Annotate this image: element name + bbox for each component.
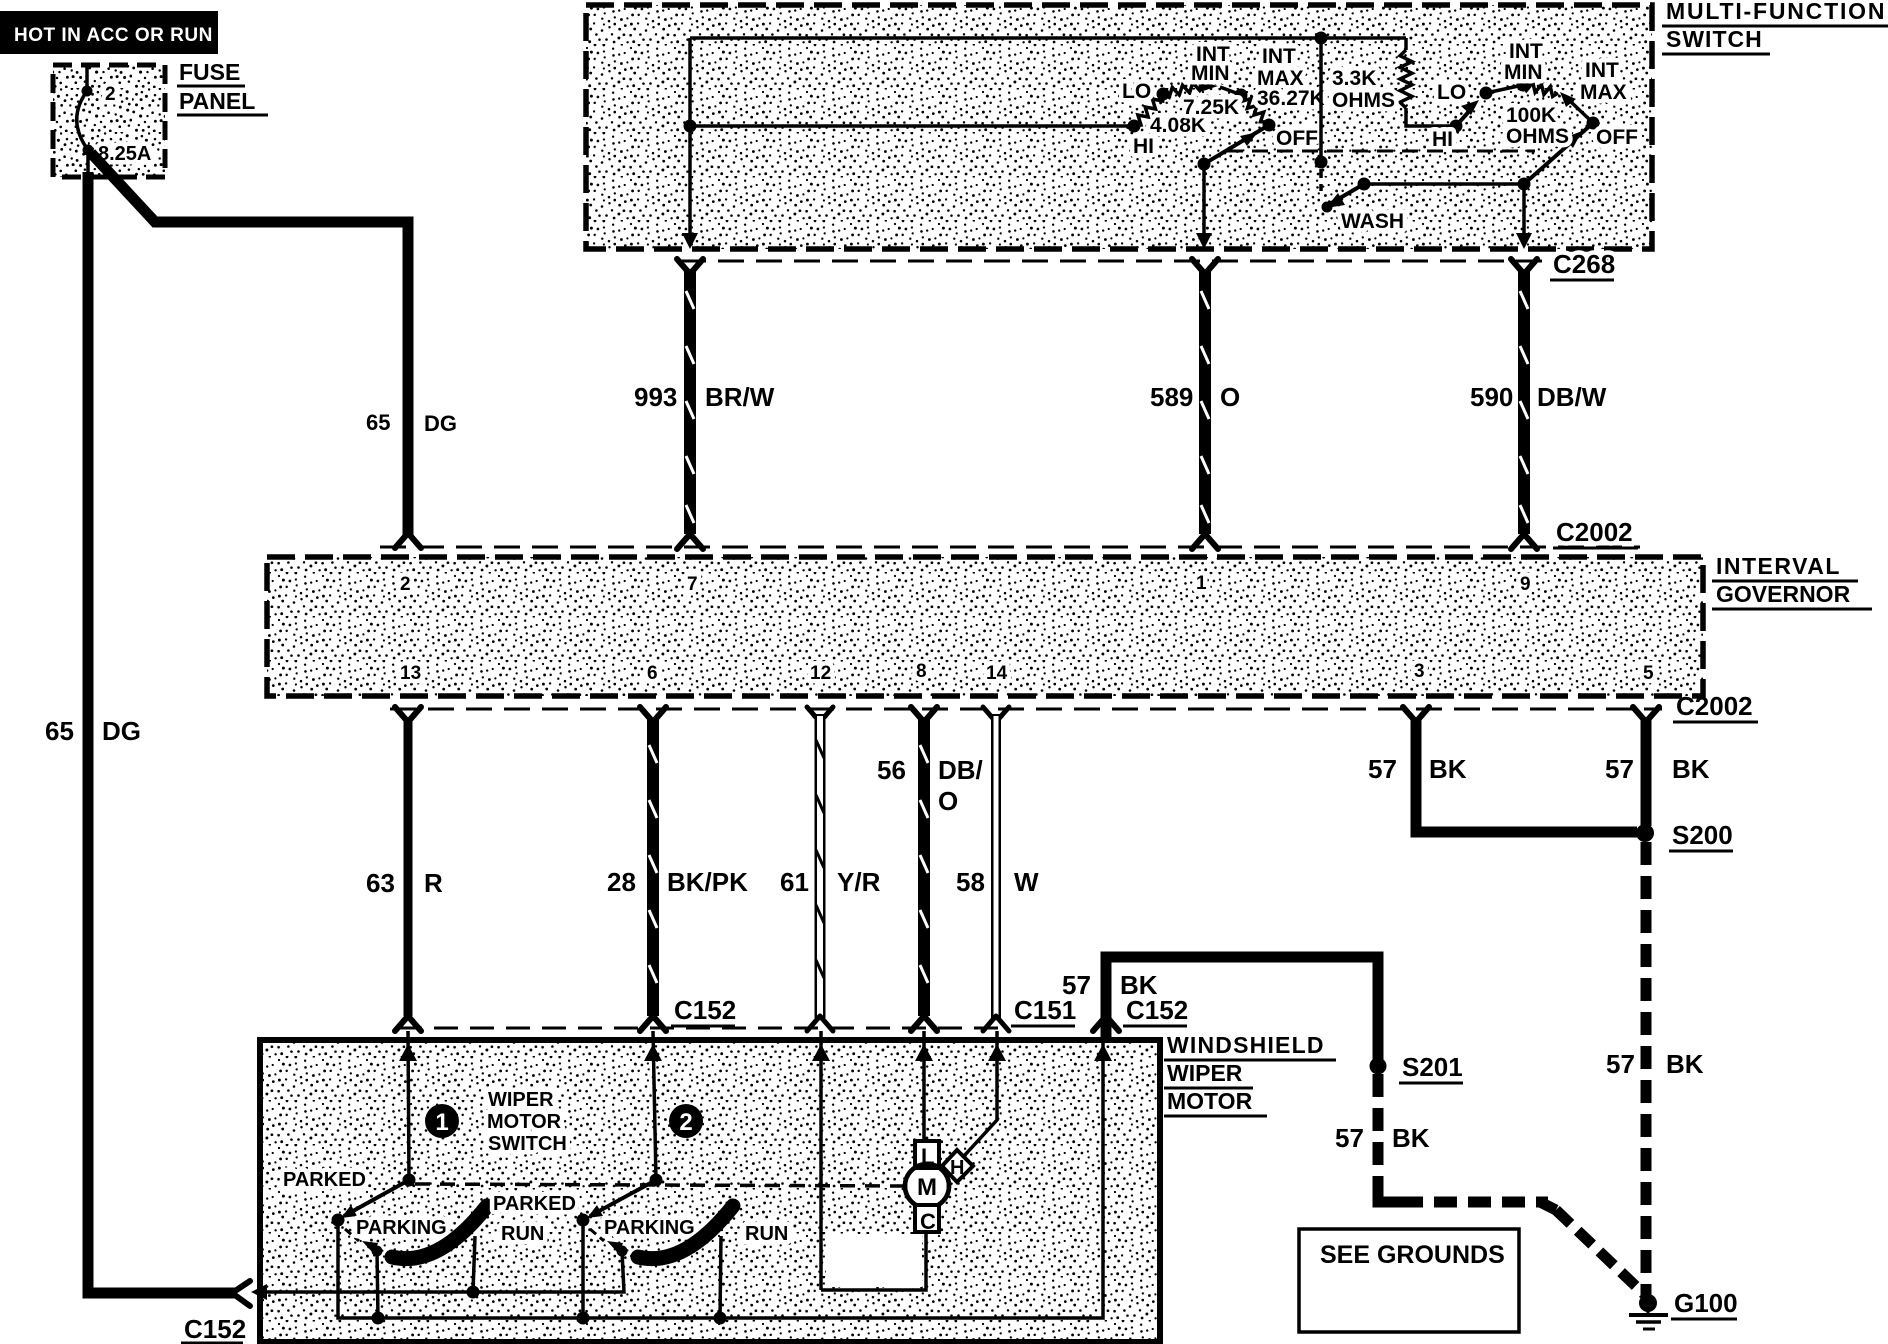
svg-text:14: 14 (986, 663, 1008, 684)
wire: 58 stem to motor brush H (964, 1031, 997, 1156)
svg-text:BK: BK (1429, 754, 1467, 784)
svg-text:1: 1 (435, 1109, 448, 1136)
svg-text:65: 65 (45, 716, 74, 746)
node: wash arm end (1322, 202, 1333, 213)
svg-text:1: 1 (1196, 573, 1207, 594)
splice S201 (1370, 1058, 1387, 1075)
node: switch 2 parked on bus (577, 1312, 590, 1325)
svg-text:BK/PK: BK/PK (667, 867, 748, 897)
svg-text:WIPER: WIPER (1167, 1060, 1243, 1086)
node: INT MAX contact (left wiper switch) (1235, 89, 1248, 102)
connector C268 fork at 590 wire (1511, 259, 1537, 274)
svg-text:INT: INT (1585, 59, 1619, 82)
connector C2002 fork at governor pin 2 (395, 533, 421, 548)
wire 65 DG right run (fuse to governor pin 2) (91, 153, 408, 536)
arrow into box at 56 wire (915, 1044, 933, 1061)
wiper switch 2 arm arrowhead (587, 1205, 603, 1218)
node: switch 2 parked contact (577, 1214, 590, 1227)
C152 fork at 28 wire (640, 1016, 666, 1031)
node: OFF contact (left wiper switch) (1263, 119, 1276, 132)
wiper position arrow INT MAX right (1560, 92, 1576, 107)
wire 56 DB/O (hatched) (918, 718, 930, 1016)
svg-text:C2002: C2002 (1676, 691, 1753, 721)
wiper switch 1 arm (344, 1180, 409, 1216)
svg-text:57: 57 (1606, 1049, 1635, 1079)
svg-text:3: 3 (1414, 661, 1425, 682)
node: run 1 on park bus (467, 1286, 480, 1299)
C151 fork at 58 wire (983, 1016, 1009, 1031)
svg-text:DB/: DB/ (938, 755, 983, 785)
svg-text:HI: HI (1432, 128, 1453, 151)
svg-text:DG: DG (424, 411, 457, 436)
cam arc switch 1 (392, 1206, 487, 1259)
wire 58 W (outlined) (991, 714, 1001, 1018)
svg-text:PARKED: PARKED (493, 1193, 576, 1215)
svg-text:12: 12 (810, 663, 831, 684)
wire: resistor bottom to HI right (1406, 108, 1456, 126)
arrow into box at 61 wire (812, 1044, 830, 1061)
node: 590 drop junction (1518, 178, 1531, 191)
node: fuse bottom terminal (83, 145, 94, 156)
resistor 3.3K OHMS (1404, 38, 1408, 50)
connector C152/C151 dashed line at motor (398, 1027, 1010, 1030)
wiper arm right switch (OFF to junction) (1524, 123, 1593, 184)
wire diagonal to G100 (dashed thick) (1540, 1202, 1556, 1210)
svg-text:C268: C268 (1553, 249, 1615, 279)
wiper position arrow INT MIN (1198, 81, 1218, 92)
svg-text:MAX: MAX (1580, 81, 1627, 104)
svg-text:R: R (424, 868, 443, 898)
node: LO contact (left wiper switch) (1157, 88, 1170, 101)
motor M assembly (905, 1141, 973, 1234)
wire: 57 BK stem inside box to bottom bus (720, 1031, 1103, 1318)
node: LO contact (right washer switch) (1480, 87, 1493, 100)
arrow out of box to C152 (park bus) (251, 1284, 267, 1300)
C152 fork at 61 wire (807, 1016, 833, 1031)
node: wash fixed contact (1315, 156, 1328, 169)
svg-text:3.3K: 3.3K (1332, 67, 1376, 90)
wire 65 DG left run (fuse panel down to C152) (88, 172, 237, 1293)
node: fuse top terminal (82, 86, 93, 97)
wiper arrowhead at LO (1461, 100, 1479, 115)
label: 100K OHMS (1506, 104, 1569, 148)
connector C268 dashed line (680, 260, 1612, 263)
svg-text:OHMS: OHMS (1332, 89, 1395, 112)
connector C2002 top dashed line (380, 546, 1640, 549)
switch id circle 1 (425, 1104, 459, 1138)
connector C2002 fork at 590 wire (1511, 534, 1537, 549)
wire: 61 stem down inside box (819, 1031, 823, 1290)
label: 3.3K OHMS (1332, 67, 1395, 112)
wire: parked contact 1 down to bottom bus (338, 1220, 378, 1318)
svg-text:LO: LO (1122, 80, 1151, 103)
svg-text:BK: BK (1392, 1123, 1430, 1153)
wire: motor C brush to Y/R return (821, 1232, 926, 1290)
connector C2002 fork at 589 wire (1192, 534, 1218, 549)
dashed stub below wash contact (1319, 169, 1323, 191)
wire: 28 stem to pivot 2 (653, 1031, 656, 1180)
switch id circle 2 (669, 1104, 703, 1138)
svg-text:C152: C152 (184, 1314, 246, 1344)
svg-text:7: 7 (687, 574, 698, 595)
connector C2002 bottom dashed line (390, 708, 1662, 711)
svg-text:2: 2 (679, 1109, 692, 1136)
wiper switch 1 arm arrowhead (341, 1205, 357, 1218)
wash switch arm (1328, 184, 1364, 205)
wire: wash pivot to 590 drop (1364, 182, 1524, 186)
arrow down at MFS bottom x=690 (682, 233, 698, 249)
label: 63 R (366, 868, 443, 898)
svg-text:OHMS: OHMS (1506, 125, 1569, 148)
cam dashed line pivot1 to motor (415, 1184, 903, 1186)
node: left wiper pivot (1198, 158, 1211, 171)
svg-text:PARKING: PARKING (356, 1217, 447, 1239)
label: 590 DB/W (1470, 382, 1607, 412)
ground G100 (1629, 1294, 1668, 1329)
svg-text:36.27K: 36.27K (1257, 87, 1325, 110)
label: connector C152 bottom left (181, 1314, 246, 1344)
svg-text:590: 590 (1470, 382, 1513, 412)
svg-text:BK: BK (1672, 754, 1710, 784)
resistor 7.25K (1163, 83, 1204, 97)
node: INT MIN contact right (1517, 79, 1530, 92)
C2002 fork at 57 wire pin 3 (1403, 707, 1429, 722)
svg-text:WINDSHIELD: WINDSHIELD (1167, 1032, 1325, 1058)
wiper arm arrowhead (1240, 132, 1258, 146)
wire 57 BK from pin 5 (thick) (1641, 718, 1652, 826)
wire 57 BK from pin 3 (thick) (1416, 718, 1637, 832)
wiper arm right arrowhead (1564, 131, 1582, 148)
svg-text:8: 8 (916, 661, 927, 682)
internal dashed separator in MFS (1227, 150, 1535, 153)
C2002 fork at 56 wire (911, 707, 937, 722)
svg-text:7.25K: 7.25K (1183, 96, 1239, 119)
svg-text:G100: G100 (1674, 1288, 1738, 1318)
arrow into box at 58 wire (988, 1044, 1006, 1061)
wire: INT MIN to INT MAX contact (1220, 87, 1239, 94)
label: S200 (1669, 820, 1733, 851)
wire 589 O (hatched) (1199, 270, 1211, 534)
white pocket below motor (826, 1234, 922, 1287)
label: 57 BK ground run (1606, 1049, 1704, 1079)
node: run 2 on bottom bus (714, 1312, 727, 1325)
svg-text:BK: BK (1666, 1049, 1704, 1079)
resistor 4.08K (1134, 94, 1163, 126)
resistor 36.27K (1241, 95, 1267, 122)
label: INT MIN right (1504, 40, 1543, 84)
svg-text:WIPER: WIPER (488, 1089, 554, 1111)
label: G100 (1671, 1288, 1738, 1319)
label: 56 DB/O (877, 755, 983, 816)
svg-text:2: 2 (400, 574, 411, 595)
svg-text:S201: S201 (1402, 1052, 1463, 1082)
svg-text:C151: C151 (1014, 995, 1076, 1025)
label: C268 (1550, 249, 1615, 280)
label: S201 (1399, 1052, 1463, 1083)
wire: fuse to panel bottom (86, 150, 90, 176)
multi-function switch box (586, 5, 1652, 249)
node: HI contact (left wiper switch) (1128, 120, 1141, 133)
svg-text:RUN: RUN (501, 1223, 544, 1245)
svg-text:2: 2 (105, 84, 116, 105)
label: INT MIN (1191, 43, 1230, 85)
wire: INT MAX to OFF right (1570, 101, 1590, 120)
connector C152 fork (left bottom) (232, 1281, 250, 1306)
svg-text:SEE GROUNDS: SEE GROUNDS (1320, 1241, 1505, 1269)
svg-text:57: 57 (1605, 754, 1634, 784)
svg-text:WASH: WASH (1341, 210, 1404, 233)
svg-text:HI: HI (1133, 135, 1154, 158)
svg-text:100K: 100K (1506, 104, 1556, 127)
label: 57 BK pin3 (1368, 754, 1467, 784)
wire: MFS left vertical (pin to C268, 993 circuit) (688, 38, 692, 237)
svg-text:6: 6 (647, 663, 658, 684)
svg-text:C152: C152 (674, 995, 736, 1025)
label: 65 DG right (366, 410, 457, 436)
C152 fork at 63 wire (395, 1016, 421, 1031)
svg-text:61: 61 (780, 867, 809, 897)
label: INT MAX right (1580, 59, 1627, 104)
svg-text:FUSE: FUSE (179, 59, 240, 85)
node: wiper switch 2 pivot (650, 1174, 663, 1187)
svg-text:C: C (920, 1209, 936, 1234)
svg-text:INTERVAL: INTERVAL (1716, 553, 1841, 579)
wire: junction down to wash contact (1319, 38, 1323, 162)
svg-text:S200: S200 (1672, 820, 1733, 850)
connector C268 fork at 589 wire (1192, 259, 1218, 274)
svg-text:HOT IN ACC OR RUN: HOT IN ACC OR RUN (14, 25, 213, 46)
wire: 63 stem to pivot 1 (408, 1031, 409, 1180)
label: C152 at 28 wire (671, 995, 736, 1026)
node: parking 2 contact (617, 1246, 628, 1257)
wire: parking 2 contact down to park bus corner (258, 1251, 624, 1292)
wire 61 Y/R (outlined with hatch) (816, 714, 824, 1018)
svg-text:589: 589 (1150, 382, 1193, 412)
wire: bottom bus middle segment (376, 1316, 722, 1320)
C2002 fork at 28 wire (640, 707, 666, 722)
wire 57 BK ground run (dashed thick) (1641, 842, 1652, 1298)
node: HI contact (right washer switch) (1450, 120, 1463, 133)
svg-text:C2002: C2002 (1556, 517, 1633, 547)
interval governor box (267, 557, 1703, 696)
svg-text:DG: DG (102, 716, 141, 746)
svg-text:65: 65 (366, 410, 390, 435)
node: left vertical / HI feed junction (684, 120, 697, 133)
windshield wiper motor box (260, 1040, 1160, 1342)
wire: run 1 contact drop (473, 1236, 475, 1292)
svg-text:INT: INT (1262, 45, 1296, 68)
svg-text:OFF: OFF (1596, 126, 1638, 149)
arrow down at MFS bottom x=1204 (1196, 233, 1212, 249)
label: 61 Y/R (780, 867, 881, 897)
svg-text:MIN: MIN (1191, 62, 1230, 85)
svg-text:GOVERNOR: GOVERNOR (1716, 581, 1851, 607)
wire 28 BK/PK (hatched) (647, 718, 659, 1016)
parking 1 contact arrowhead (362, 1241, 378, 1254)
label: wiper motor switch (487, 1089, 567, 1155)
label: multi-function switch title (1662, 0, 1888, 54)
wire: fuse panel feed stub (85, 67, 89, 91)
fuse panel label (177, 59, 268, 115)
svg-text:C152: C152 (1126, 995, 1188, 1025)
connector C2002 fork at 993 wire (677, 534, 703, 549)
see grounds box (1299, 1229, 1519, 1332)
label: INT MAX left (1257, 45, 1304, 90)
wash arm arrowhead (1326, 193, 1345, 208)
svg-text:O: O (938, 786, 958, 816)
svg-text:MULTI-FUNCTION: MULTI-FUNCTION (1666, 0, 1886, 24)
label: interval governor title (1712, 553, 1872, 609)
svg-text:13: 13 (400, 663, 421, 684)
cam arc switch 2 (638, 1206, 733, 1259)
svg-text:BR/W: BR/W (705, 382, 775, 412)
svg-text:MIN: MIN (1504, 61, 1543, 84)
svg-text:MOTOR: MOTOR (1167, 1088, 1253, 1114)
label: 993 BR/W (634, 382, 775, 412)
node: top bus junction (1315, 32, 1328, 45)
C152 fork at 57 BK wire (1093, 1016, 1119, 1031)
wire: pivot to C268 (589 circuit) (1202, 164, 1206, 237)
svg-text:O: O (1220, 382, 1240, 412)
wire S201 to ground (dashed thick) (1373, 1074, 1384, 1186)
resistor 100K OHMS (1523, 83, 1558, 97)
C2002 fork at 58 wire (983, 707, 1009, 722)
fuse F (8.25A) (77, 91, 88, 150)
wire: MFS top bus (690, 36, 1406, 40)
wire: HI feed horizontal (690, 124, 1134, 128)
C151 fork at 56 wire (911, 1016, 937, 1031)
wiper arm right (HI pointing to LO) (1456, 108, 1472, 126)
node: switch 1 parked contact (332, 1214, 345, 1227)
svg-text:LO: LO (1437, 81, 1466, 104)
svg-text:PANEL: PANEL (179, 88, 255, 114)
label: C151 (1011, 995, 1076, 1026)
svg-text:SWITCH: SWITCH (488, 1133, 567, 1155)
label: 57 BK pin5 (1605, 754, 1710, 784)
svg-text:Y/R: Y/R (837, 867, 881, 897)
C2002 fork at 61 wire (807, 707, 833, 722)
label: 58 W (956, 867, 1039, 897)
label: 57 BK at motor (1062, 970, 1158, 1000)
wire: drop to C268 (590 circuit) (1522, 184, 1526, 237)
node: OFF contact (right washer switch) (1587, 117, 1600, 130)
svg-text:W: W (1014, 867, 1039, 897)
svg-text:57: 57 (1368, 754, 1397, 784)
node: parking 1 contact (372, 1246, 383, 1257)
svg-text:INT: INT (1509, 40, 1543, 63)
wire 63 R (solid) (404, 718, 413, 1016)
svg-text:9: 9 (1520, 574, 1531, 595)
svg-text:PARKED: PARKED (283, 1169, 366, 1191)
svg-text:56: 56 (877, 755, 906, 785)
wire: LO to INT MIN right (1486, 85, 1523, 93)
wire 590 DB/W (hatched) (1518, 270, 1530, 534)
parking 1 dashed stub (345, 1229, 359, 1241)
label: 57 BK S201 leg (1335, 1123, 1430, 1153)
wire: run 2 contact drop (720, 1236, 721, 1318)
svg-text:28: 28 (607, 867, 636, 897)
svg-text:63: 63 (366, 868, 395, 898)
label: 28 BK/PK (607, 867, 748, 897)
arrow down at MFS bottom x=1524 (1516, 233, 1532, 249)
label: C2002 top (1553, 517, 1638, 548)
wiper arm left switch (OFF to pivot) (1204, 125, 1269, 164)
C2002 fork at 63 wire (395, 707, 421, 722)
node: wiper switch 1 pivot (403, 1174, 416, 1187)
label: windshield wiper motor title (1164, 1032, 1336, 1116)
wire 57 BK motor to S201 (thick solid) (1106, 957, 1378, 1062)
svg-text:MOTOR: MOTOR (487, 1111, 562, 1133)
node: parking 1 on bus (372, 1312, 385, 1325)
connector C268 fork at 993 wire (677, 259, 703, 274)
wire: parking 1 contact to bottom bus (377, 1251, 378, 1318)
svg-text:M: M (917, 1174, 937, 1201)
svg-text:57: 57 (1335, 1123, 1364, 1153)
splice S200 (1636, 824, 1654, 842)
hot in acc or run banner (0, 11, 218, 54)
svg-text:H: H (950, 1157, 964, 1179)
label: 65 DG left (45, 716, 141, 746)
parking 2 contact arrowhead (607, 1241, 623, 1254)
arrow into box at 28 wire (644, 1044, 662, 1061)
svg-text:SWITCH: SWITCH (1666, 26, 1763, 52)
wire 993 BR/W (hatched) (684, 270, 696, 534)
label: C152 at 57 BK wire (1123, 995, 1188, 1026)
label: 589 O (1150, 382, 1240, 412)
wire: parked contact 2 down to bottom bus (581, 1220, 585, 1318)
svg-text:58: 58 (956, 867, 985, 897)
fuse panel box (53, 65, 165, 177)
label: C2002 bottom (1673, 691, 1758, 722)
svg-text:PARKING: PARKING (604, 1217, 695, 1239)
svg-text:RUN: RUN (745, 1223, 788, 1245)
svg-text:DB/W: DB/W (1537, 382, 1607, 412)
svg-text:OFF: OFF (1276, 127, 1318, 150)
parking 2 dashed stub (590, 1229, 604, 1241)
arrow into box at 63 wire (399, 1044, 417, 1061)
svg-text:5: 5 (1643, 663, 1654, 684)
wiper switch 2 arm (590, 1180, 656, 1216)
wire: 56 stem to motor brush L (922, 1031, 926, 1143)
C2002 fork at 57 wire pin 5 (1633, 707, 1659, 722)
node: wash pivot (1358, 178, 1371, 191)
arrow into box at 57 BK wire (1094, 1044, 1112, 1061)
svg-text:993: 993 (634, 382, 677, 412)
